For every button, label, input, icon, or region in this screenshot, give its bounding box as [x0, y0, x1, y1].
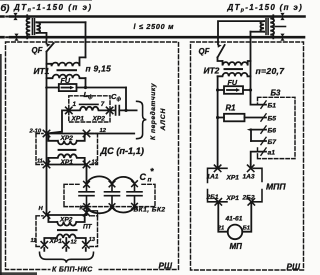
svg-text:ДТр-1-150 (п э): ДТр-1-150 (п э)	[227, 3, 304, 14]
svg-text:11: 11	[37, 158, 43, 164]
svg-text:R1: R1	[226, 104, 236, 113]
rail bus 1 (top)	[1, 17, 305, 38]
wire: XP1-DS right pin down to capacitor bank	[86, 165, 88, 185]
motor MP circle	[228, 225, 243, 240]
svg-text:ХР1: ХР1	[226, 174, 240, 181]
svg-text:Б1: Б1	[268, 103, 277, 110]
pin 2B2	[248, 199, 254, 205]
wire: below QF to IT2	[218, 57, 223, 61]
transformer PT core	[57, 229, 78, 231]
svg-text:13: 13	[89, 237, 95, 243]
terminal B7	[261, 137, 266, 144]
top jumpers	[87, 176, 135, 184]
transformer PT center tap	[65, 238, 67, 245]
bottom jumpers	[87, 207, 135, 213]
connector pin XP2 on filter box	[106, 107, 112, 113]
pin X right XP1-DS	[83, 161, 89, 167]
svg-text:МПП: МПП	[266, 182, 286, 192]
connector XP2 bracket (PT)	[48, 215, 84, 222]
pin 1A1	[214, 165, 220, 171]
svg-text:Lф: Lф	[84, 90, 94, 101]
svg-text:*: *	[150, 167, 154, 177]
scan edge artifacts	[0, 54, 2, 275]
filter block dashed box	[69, 96, 110, 122]
top pins X on capacitors	[84, 181, 138, 187]
brace to ALSN transmitter	[137, 101, 147, 138]
pin X left XP1-DS	[43, 161, 49, 167]
MPP connector top-right bracket	[253, 168, 262, 181]
svg-text:МП: МП	[230, 242, 243, 251]
transformer DTp main winding	[26, 15, 30, 38]
pins X XP1-PT	[41, 242, 89, 248]
insulated joint top-left	[13, 13, 284, 41]
svg-text:QF: QF	[199, 47, 210, 56]
svg-text:12: 12	[71, 239, 77, 245]
insulated joint bottom-left	[14, 34, 18, 37]
node: FU row junctions	[84, 86, 87, 89]
svg-text:п=20,7: п=20,7	[256, 66, 286, 76]
transformer PT bottom winding	[44, 234, 86, 244]
svg-text:ИТ2: ИТ2	[204, 66, 220, 76]
wire: left rail x217.6	[217, 76, 219, 168]
insulated joint top-right	[280, 13, 284, 16]
svg-text:ХР1: ХР1	[226, 195, 240, 202]
capacitor bank dashed box	[64, 184, 155, 206]
transformer IT2 secondary winding	[218, 73, 251, 76]
wire: motor left lead	[218, 202, 227, 232]
svg-text:21: 21	[217, 226, 224, 232]
stubs below pins	[44, 248, 86, 251]
stub from K to PT box edge	[89, 211, 98, 217]
capacitor 3	[127, 184, 142, 206]
svg-text:1А3: 1А3	[243, 173, 255, 180]
svg-text:К: К	[80, 206, 84, 212]
wire: FU row	[47, 87, 127, 89]
terminal B6	[261, 126, 266, 133]
svg-text:ПТ: ПТ	[83, 223, 93, 230]
svg-text:ДТп-1-150 (п э): ДТп-1-150 (п э)	[13, 3, 93, 14]
svg-text:Н: Н	[39, 206, 44, 212]
left RSh cabinet dashed box	[6, 42, 179, 270]
wire: R1 row	[218, 117, 266, 119]
svg-text:Сф: Сф	[111, 92, 121, 103]
wire: FU row right	[218, 89, 251, 91]
connector row XP1 (DS)	[47, 164, 87, 166]
transformer PT top winding	[57, 222, 76, 226]
transformer IT1 secondary winding	[47, 75, 86, 79]
svg-text:а1: а1	[268, 150, 276, 157]
connector pin XP1 on filter box	[66, 107, 72, 113]
transformer DTp core	[32, 19, 34, 35]
MPP connector bottom-right bracket	[252, 190, 262, 202]
insulated joint bottom-right	[280, 34, 284, 37]
wire: right rail x250.5	[251, 32, 267, 105]
wire: DTp secondary bottom to QF	[37, 33, 47, 44]
wire: motor right lead	[242, 202, 251, 232]
svg-text:К БПП-НКС: К БПП-НКС	[52, 267, 93, 274]
right RSh cabinet dashed box	[191, 42, 304, 270]
wire B7	[251, 140, 266, 142]
terminal block B3 dashed box	[258, 97, 296, 158]
transformer IT2 primary winding	[223, 61, 251, 66]
label K BPP-NKS	[51, 265, 99, 273]
svg-text:l ≤ 2500 м: l ≤ 2500 м	[134, 22, 175, 31]
continuation dash right mid	[275, 26, 286, 28]
svg-text:К передатчику: К передатчику	[149, 83, 157, 140]
svg-text:Б5: Б5	[268, 116, 277, 123]
resistor R1	[224, 114, 245, 122]
wire: right riser x85.5 down to FU row	[85, 22, 87, 87]
connector row XP2 (DS)	[47, 133, 135, 135]
pin 1A3	[248, 165, 254, 171]
terminal a1	[261, 148, 266, 155]
terminal B5	[261, 114, 266, 121]
transformer DTr core	[266, 19, 268, 35]
svg-text:Б7: Б7	[268, 139, 278, 146]
wire: Cf to brace	[119, 109, 136, 111]
svg-text:7: 7	[101, 101, 105, 108]
inductor Lf core	[79, 104, 99, 106]
MPP connector top-left bracket	[208, 168, 228, 182]
transformer DTr secondary winding	[260, 21, 264, 32]
svg-text:1: 1	[73, 101, 77, 108]
wire a1 to MPP	[251, 152, 266, 169]
transformer DS bottom winding	[48, 154, 84, 164]
svg-text:12: 12	[100, 128, 107, 134]
svg-text:РШ: РШ	[159, 262, 173, 271]
wire: N-K row	[47, 214, 87, 216]
transformer DTp secondary winding	[37, 22, 41, 33]
jumper B6-B7	[250, 130, 252, 141]
svg-text:QF: QF	[32, 46, 43, 55]
pin X right XP2-DS	[83, 130, 89, 136]
svg-text:ДС (п-1,1): ДС (п-1,1)	[100, 146, 144, 156]
wire: DTr secondary bottom to right rail	[251, 31, 265, 33]
transformer IT1 primary winding	[47, 57, 86, 66]
svg-text:б): б)	[1, 2, 10, 13]
capacitor 1	[79, 184, 94, 206]
wire: capacitor bottom to K pin	[86, 207, 88, 215]
inductor Lf winding	[69, 107, 115, 111]
svg-text:41-61: 41-61	[225, 216, 243, 223]
wire: FU row drop to filter output	[125, 88, 127, 111]
wire B6	[251, 129, 266, 131]
DS block dashed box	[36, 134, 98, 165]
capacitor Cf	[116, 106, 120, 115]
svg-text:ХР1: ХР1	[60, 159, 74, 166]
svg-text:ХР2: ХР2	[92, 115, 106, 122]
capacitor 2	[105, 184, 120, 206]
transformer DS core	[58, 149, 77, 151]
svg-text:С: С	[140, 172, 147, 182]
svg-text:1А1: 1А1	[207, 173, 219, 180]
transformer IT2 core	[224, 68, 244, 70]
wire: DTp secondary top to right riser	[37, 21, 86, 23]
svg-text:п 9,15: п 9,15	[86, 64, 112, 74]
svg-text:Б6: Б6	[268, 128, 277, 135]
terminal B1	[261, 101, 266, 108]
svg-text:п: п	[148, 177, 152, 184]
svg-text:БК1, БК2: БК1, БК2	[134, 206, 166, 213]
svg-text:2Б1: 2Б1	[206, 194, 219, 201]
svg-text:РШ: РШ	[287, 263, 301, 272]
wire: filter row left elbow down	[47, 110, 69, 133]
rail dash-dot dots	[6, 17, 8, 38]
MPP connector bottom-left bracket	[208, 190, 228, 202]
svg-text:Б3: Б3	[271, 89, 282, 98]
svg-text:2Б2: 2Б2	[242, 194, 255, 201]
transformer IT1 core	[57, 69, 78, 71]
wire: left rail x46.5 QF to N pin	[46, 52, 48, 215]
svg-text:ИТ1: ИТ1	[34, 66, 50, 76]
svg-text:Б1: Б1	[243, 226, 250, 232]
pin X left XP2-DS	[43, 130, 49, 136]
underbrace to BPP-NKS	[40, 252, 94, 262]
svg-text:ХР1: ХР1	[71, 115, 85, 122]
bottom pins X on capacitors	[84, 204, 138, 210]
pin 2B1	[215, 199, 221, 205]
transformer DS top winding	[58, 141, 77, 145]
transformer DTr main winding	[270, 15, 274, 38]
svg-text:АЛСН: АЛСН	[160, 108, 167, 132]
PT block dashed box	[36, 216, 98, 247]
svg-text:ХР1: ХР1	[49, 238, 63, 245]
wire: DTr secondary top to QF riser	[218, 21, 264, 44]
connector XP2 bracket	[48, 134, 84, 141]
